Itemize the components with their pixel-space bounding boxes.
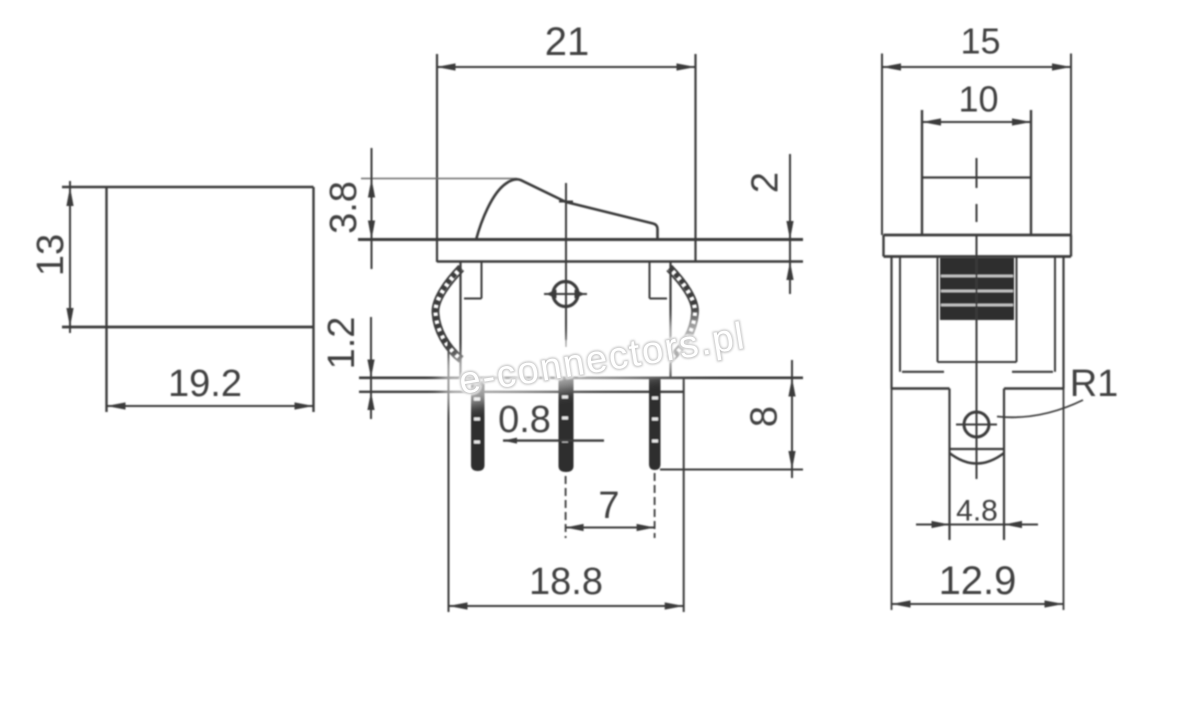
svg-text:4.8: 4.8 xyxy=(956,495,998,528)
svg-text:19.2: 19.2 xyxy=(168,363,242,405)
svg-text:15: 15 xyxy=(960,21,1000,62)
svg-text:R1: R1 xyxy=(1070,363,1119,405)
svg-text:12.9: 12.9 xyxy=(939,559,1017,603)
svg-text:2: 2 xyxy=(745,172,787,193)
svg-text:3.8: 3.8 xyxy=(323,181,365,234)
svg-text:8: 8 xyxy=(744,406,786,427)
svg-text:18.8: 18.8 xyxy=(529,561,603,603)
svg-text:10: 10 xyxy=(958,79,998,120)
svg-text:7: 7 xyxy=(598,485,619,527)
svg-text:1.2: 1.2 xyxy=(321,317,363,370)
svg-text:21: 21 xyxy=(545,20,590,64)
svg-text:0.8: 0.8 xyxy=(498,399,551,441)
svg-text:13: 13 xyxy=(30,234,72,276)
svg-text:e-connectors.pl: e-connectors.pl xyxy=(456,315,749,403)
